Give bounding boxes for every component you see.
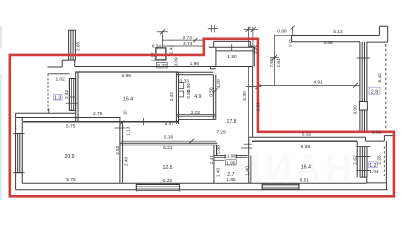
svg-text:3.92: 3.92 [252, 44, 258, 54]
hall top wall [75, 66, 253, 68]
dim ticks left of balcony top [210, 25, 212, 33]
svg-text:5.30: 5.30 [164, 134, 174, 140]
svg-text:0.34: 0.34 [152, 43, 162, 49]
svg-text:2.8: 2.8 [371, 89, 378, 95]
svg-text:12.5: 12.5 [162, 165, 172, 171]
room 12.5 top wall [120, 142, 217, 144]
svg-text:2.62: 2.62 [352, 155, 358, 165]
balcony outline [214, 40, 251, 42]
svg-text:1.00: 1.00 [216, 145, 222, 155]
lower balcony step [360, 176, 367, 178]
wall between 12.5 and 2.7 [213, 145, 215, 183]
svg-text:2.7: 2.7 [227, 172, 234, 178]
closet door jamb tick [48, 109, 50, 114]
svg-text:6.42: 6.42 [377, 73, 383, 83]
room labels blue [53, 87, 380, 178]
svg-text:6.30: 6.30 [242, 91, 248, 101]
dashed edge lower balcony [383, 147, 385, 177]
hall dim line 6.30 [248, 66, 250, 137]
room 20.9 left wall [15, 113, 17, 190]
red apartment boundary [10, 39, 394, 197]
top-right: 0.98 dim [274, 35, 276, 86]
svg-text:0.09: 0.09 [173, 57, 179, 67]
svg-text:1.2: 1.2 [369, 163, 376, 169]
svg-text:4.9: 4.9 [194, 94, 201, 100]
svg-text:2.42: 2.42 [169, 92, 175, 102]
svg-text:7.65: 7.65 [269, 58, 275, 68]
svg-text:17.8: 17.8 [226, 119, 236, 125]
balcony inner floor [216, 50, 254, 52]
room 1.3 closet [53, 95, 62, 102]
svg-text:1.90: 1.90 [227, 54, 237, 60]
room 16.4 left wall [75, 72, 77, 122]
svg-text:1.40: 1.40 [245, 166, 251, 176]
bottom wall [22, 182, 367, 184]
svg-text:1.17: 1.17 [151, 52, 157, 62]
svg-text:6.49: 6.49 [301, 144, 311, 150]
top-right window bar [357, 42, 371, 131]
svg-text:10: 10 [123, 110, 128, 115]
svg-text:4.20: 4.20 [216, 79, 222, 89]
svg-text:5.32: 5.32 [302, 131, 312, 137]
svg-text:0.15: 0.15 [288, 38, 293, 47]
svg-text:5.22: 5.22 [163, 178, 173, 184]
room 16.4 right wall [356, 141, 358, 177]
middle band wall (top of 20.9 / bottom of 16.4) [16, 112, 76, 114]
svg-text:2.41: 2.41 [168, 45, 174, 55]
svg-text:6.51: 6.51 [300, 178, 310, 184]
hall right wall with door gap [252, 67, 254, 138]
svg-text:0.98: 0.98 [277, 29, 287, 35]
room 2.7 top wall with door gap [214, 155, 226, 157]
closet door dashed [47, 74, 49, 111]
svg-text:5.76: 5.76 [66, 177, 76, 183]
svg-text:3.86: 3.86 [323, 40, 333, 46]
svg-text:2.64: 2.64 [276, 58, 282, 68]
room 2.8 [369, 87, 380, 95]
svg-text:5.75: 5.75 [66, 123, 76, 129]
top-right building wall [292, 35, 380, 37]
room 4.9 right wall [212, 75, 214, 120]
svg-text:2.42: 2.42 [64, 90, 70, 100]
svg-text:16.4: 16.4 [301, 164, 311, 170]
svg-text:2.40: 2.40 [124, 157, 130, 167]
svg-text:0.33: 0.33 [157, 63, 167, 69]
svg-text:1.98: 1.98 [227, 153, 237, 159]
svg-text:5.96: 5.96 [122, 73, 132, 79]
wall stub hatched top-left [69, 30, 76, 60]
svg-text:1.04: 1.04 [369, 169, 379, 175]
dim line vertical at balcony left [161, 31, 163, 48]
top wall of closet and room 16.4 [48, 66, 63, 68]
svg-text:2.02: 2.02 [191, 110, 201, 116]
shaft boxes room 4.9 [179, 83, 184, 89]
svg-text:1.02: 1.02 [56, 76, 66, 82]
svg-text:1.96: 1.96 [226, 160, 236, 166]
walls below mid red line [249, 136, 366, 138]
svg-text:2.74: 2.74 [183, 41, 193, 47]
svg-text:2.65: 2.65 [76, 42, 82, 52]
door tick room 4.9 [213, 89, 218, 94]
wall between 20.9 and corridor/12.5 [119, 117, 121, 183]
svg-text:3.92: 3.92 [115, 145, 121, 155]
svg-text:7.29: 7.29 [216, 130, 226, 136]
room 2.7 right wall / wall left of room 16.4 [248, 137, 250, 183]
room 1.2 [369, 162, 378, 169]
svg-text:1.3: 1.3 [54, 95, 61, 101]
svg-text:1.40: 1.40 [216, 168, 222, 178]
top-right notch [378, 26, 380, 35]
room 4.9 top wall [176, 71, 213, 73]
dimension texts [56, 29, 383, 184]
left edge blue mark [0, 74, 2, 200]
svg-text:5.21: 5.21 [163, 145, 173, 151]
dashed balcony edge top-right [385, 44, 387, 131]
room 16.4 bottom window [262, 183, 299, 190]
dim line 4.91 [258, 84, 360, 86]
svg-text:1.95: 1.95 [226, 177, 236, 183]
room 20.9 left window [13, 134, 24, 173]
svg-text:2.26: 2.26 [377, 155, 383, 165]
lower window bar right [356, 147, 370, 178]
balcony left wall corner [209, 66, 211, 69]
box around 1.96 [226, 160, 237, 165]
left edge light mark [0, 26, 2, 48]
svg-text:2.41: 2.41 [209, 155, 215, 165]
corridor dim line [121, 140, 216, 142]
svg-text:1.13: 1.13 [125, 126, 131, 136]
svg-text:4.91: 4.91 [313, 80, 323, 86]
step right of balcony with dim ticks [247, 27, 249, 47]
box around 0.33 [157, 62, 168, 68]
entrance tick on red [246, 86, 262, 88]
shaft box near balcony [156, 48, 166, 60]
room 12.5 bottom window [136, 183, 179, 191]
tick at 6.49 line left end [244, 143, 252, 145]
svg-text:5.47: 5.47 [165, 121, 175, 127]
wall between room 16.4 and room 4.9 [175, 72, 177, 124]
svg-text:5.13: 5.13 [333, 29, 343, 35]
svg-text:2.74: 2.74 [183, 35, 193, 41]
svg-text:ЦИАН: ЦИАН [235, 147, 355, 188]
closet hatched wall [66, 79, 78, 111]
tick on 20.9 right wall [115, 127, 126, 129]
svg-text:3.90: 3.90 [352, 105, 358, 115]
svg-text:0.90: 0.90 [186, 89, 191, 98]
svg-text:2.79: 2.79 [93, 111, 103, 117]
svg-text:16.4: 16.4 [123, 97, 133, 103]
svg-text:0.56: 0.56 [209, 87, 215, 97]
svg-text:2.81: 2.81 [256, 102, 262, 112]
dim lines 2.74 [162, 39, 203, 41]
svg-text:20.9: 20.9 [64, 154, 74, 160]
tick on band [142, 118, 144, 125]
svg-text:1.92: 1.92 [372, 129, 382, 135]
room 4.9 bottom wall [176, 114, 215, 116]
svg-text:1.96: 1.96 [190, 61, 200, 67]
